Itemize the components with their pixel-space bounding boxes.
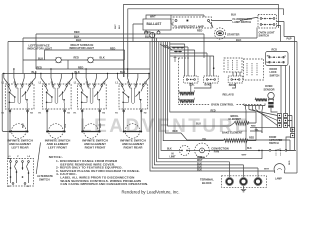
infinite switch right rear [119,84,148,138]
svg-text:RED: RED [197,30,202,33]
wire riser bundle [150,34,275,171]
svg-text:L2: L2 [28,156,31,158]
fluorescent lamp [173,17,212,28]
svg-text:RED: RED [249,137,254,140]
svg-text:BLK: BLK [167,148,172,150]
svg-text:RED: RED [110,47,115,50]
svg-text:COIL: COIL [189,85,195,87]
door lock switch RCD [266,52,289,66]
svg-text:LEFT REAR: LEFT REAR [11,145,29,149]
hi-limit thermostat [180,146,190,156]
convection fan [195,143,210,158]
svg-text:BLK: BLK [197,168,202,171]
svg-text:BLK: BLK [76,38,81,42]
svg-text:L1: L1 [8,156,11,158]
svg-text:SWITCH: SWITCH [270,74,280,77]
wire P&P [277,22,295,151]
svg-text:RED: RED [289,160,291,165]
oven light switch [260,24,262,26]
svg-text:STARTER: STARTER [227,32,240,36]
svg-text:RED: RED [23,123,25,128]
svg-text:BLOCK: BLOCK [202,181,212,185]
svg-text:FLUORESCENT LAMP: FLUORESCENT LAMP [175,24,204,28]
infinite switch captions [7,138,146,149]
fluorescent lamp switch [258,15,277,29]
wire BLK lower bus [8,42,297,174]
svg-text:H1: H1 [1,112,5,114]
watermark [80,116,250,137]
svg-text:RED: RED [200,157,205,159]
svg-text:SENSOR: SENSOR [264,87,275,91]
svg-text:BLK: BLK [231,13,236,16]
starter [214,28,225,39]
right surface indicator light [70,43,95,50]
svg-text:L1: L1 [39,82,42,84]
svg-text:LAMP SWITCH: LAMP SWITCH [233,20,252,24]
svg-text:RED: RED [251,126,256,128]
svg-text:BLU: BLU [196,123,201,126]
svg-text:BLK: BLK [247,148,252,150]
svg-text:H2: H2 [27,186,31,188]
svg-text:BLK: BLK [119,24,121,29]
svg-text:SWITCH: SWITCH [39,177,50,181]
connector sensor zigzag [255,98,267,101]
ground [241,186,246,192]
connector right edge [291,128,295,138]
svg-text:L1: L1 [74,82,77,84]
ballast [143,19,171,30]
svg-text:BALLAST: BALLAST [147,22,162,26]
svg-text:YEL: YEL [65,123,67,128]
svg-text:H1: H1 [38,112,42,114]
svg-text:RED: RED [74,57,79,60]
wire RED bus [36,34,204,69]
svg-text:LEFT FRONT: LEFT FRONT [48,145,67,149]
svg-text:H2: H2 [144,112,148,114]
svg-text:C: C [285,56,287,58]
svg-text:YEL: YEL [255,129,260,131]
svg-text:RIGHT FRONT: RIGHT FRONT [85,145,106,149]
connector P2 [179,98,194,103]
console frame [124,5,284,78]
wire left riser [2,38,23,159]
wire alternate switch leader [36,143,40,175]
svg-text:P&P: P&P [287,38,292,41]
svg-text:BLK: BLK [74,34,79,38]
svg-text:WHT: WHT [242,154,248,156]
door actuated switch [269,136,282,145]
connector grid [278,114,288,128]
svg-text:LIMIT: LIMIT [170,156,177,158]
wire junction fan [160,44,184,52]
svg-text:CAN CAUSE IMPROPER AND DANGERO: CAN CAUSE IMPROPER AND DANGEROUS OPERATI… [60,182,148,186]
svg-text:WHT: WHT [264,169,270,171]
fluorescent tube lamp symbols [145,31,148,34]
wire RED oven feed [181,133,290,150]
svg-text:FAN: FAN [214,150,219,154]
svg-text:BLK: BLK [100,57,105,60]
svg-text:H1: H1 [74,112,78,114]
relays [184,76,198,83]
notice text [49,155,149,186]
svg-text:P: P [17,156,19,158]
svg-text:SWITCH: SWITCH [259,34,270,38]
wire oven control feeds [170,44,214,76]
svg-text:BLK: BLK [120,71,125,74]
wire RED to lights [45,50,125,60]
broil element [229,114,242,121]
svg-text:SWITCH: SWITCH [269,142,279,145]
alternate switch [8,159,34,187]
svg-text:Rendered by LeadVenture, Inc.: Rendered by LeadVenture, Inc. [122,189,180,194]
svg-text:H2: H2 [30,112,34,114]
svg-text:BLK: BLK [32,71,37,74]
infinite switch left front [42,84,71,138]
svg-text:H1: H1 [115,112,119,114]
svg-text:RIGHT REAR: RIGHT REAR [124,145,144,149]
bake element [222,131,243,135]
svg-text:BLK: BLK [75,71,80,74]
oven control [179,58,263,105]
connector comb [244,104,265,110]
wire sensor to grid [249,66,292,126]
svg-text:RED: RED [211,109,216,112]
svg-text:BAKE: BAKE [205,84,212,87]
svg-text:INDICATOR LIGHT: INDICATOR LIGHT [70,46,95,50]
left surface indicator light [28,43,53,50]
wire BLK switch bus [2,73,150,75]
svg-text:HI: HI [172,154,175,156]
svg-text:RED: RED [74,30,80,34]
svg-text:RED: RED [78,66,83,69]
svg-text:BAKE ELEMENT: BAKE ELEMENT [222,131,243,135]
svg-text:ELEMENT: ELEMENT [229,117,242,121]
svg-text:RCD: RCD [272,49,278,52]
svg-text:OVEN CONTROL: OVEN CONTROL [211,103,234,107]
svg-text:LAMP: LAMP [275,178,282,181]
svg-text:L1: L1 [2,82,5,84]
oven lamp [274,164,285,172]
terminal block [200,178,214,185]
svg-text:RED: RED [100,123,102,128]
rendered-by credit [122,189,180,194]
wire BLK bus [23,28,257,39]
infinite switch right front [78,84,107,138]
svg-text:RELAYS: RELAYS [223,92,234,96]
svg-text:RED: RED [37,66,42,69]
wire bottom bus labels [197,156,203,171]
svg-text:BLK: BLK [236,38,241,42]
svg-text:H2: H2 [102,112,106,114]
console right dashed box [244,59,264,80]
svg-text:WHT: WHT [115,24,117,29]
svg-text:L1: L1 [115,82,118,84]
svg-text:YEL: YEL [202,138,207,141]
infinite switch left rear [5,84,34,138]
svg-text:RED: RED [173,130,178,133]
svg-text:H2: H2 [67,112,71,114]
wire RED switch bus [36,68,150,70]
connector P1 [179,90,194,95]
svg-text:BLK: BLK [38,57,43,60]
oven sensor [264,84,275,91]
svg-text:WHT: WHT [150,15,156,18]
